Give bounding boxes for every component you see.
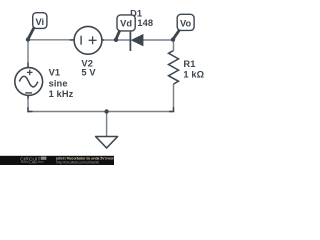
wire corner bottom left [28, 107, 33, 111]
wire right vertical lower [173, 84, 175, 112]
svg-text:1 kHz: 1 kHz [49, 89, 74, 99]
wire left vertical upper [27, 40, 29, 68]
label V2 value [81, 59, 96, 78]
diode D1 [130, 32, 143, 51]
node dot Vo [171, 37, 175, 41]
flag label Vd [116, 15, 135, 39]
voltage source V2 (5V DC) [74, 26, 102, 54]
svg-text:V1: V1 [49, 67, 61, 77]
wire resistor top lead [173, 40, 175, 51]
svg-text:Vi: Vi [35, 17, 44, 27]
svg-text:http://circuitlab.com/c/x5ar96: http://circuitlab.com/c/x5ar96 [56, 161, 99, 165]
wire bottom horizontal [27, 111, 174, 113]
pin V2 left [70, 39, 75, 41]
pin V2 right [101, 39, 104, 41]
node dot Vi [26, 37, 30, 41]
wire V2 to diode [102, 39, 130, 41]
wire left vertical lower [27, 95, 29, 112]
svg-text:Vo: Vo [180, 18, 192, 28]
flag label Vi [28, 13, 47, 39]
wire corner bottom right [169, 107, 174, 111]
node dot Vd [114, 38, 118, 42]
svg-text:LAB: LAB [29, 161, 37, 165]
pin V1 top [27, 63, 29, 69]
voltage source V1 (sine) [15, 68, 43, 96]
svg-text:148: 148 [137, 18, 153, 28]
flag label Vo [173, 14, 194, 39]
svg-text:sine: sine [49, 79, 68, 89]
ground [96, 112, 118, 149]
resistor R1 [169, 51, 179, 85]
label V1 value [49, 67, 74, 99]
wire top left horizontal [28, 39, 74, 41]
watermark bar [0, 156, 118, 165]
svg-text:1 kΩ: 1 kΩ [183, 69, 204, 79]
svg-text:Vd: Vd [120, 19, 132, 29]
svg-text:5 V: 5 V [81, 67, 96, 77]
label D1 value [130, 8, 153, 28]
svg-text:R1: R1 [183, 59, 195, 69]
pin V1 bottom [27, 94, 29, 98]
node dot ground junction [104, 109, 108, 113]
label R1 value [183, 59, 204, 79]
wire diode to node Vo [143, 39, 174, 41]
